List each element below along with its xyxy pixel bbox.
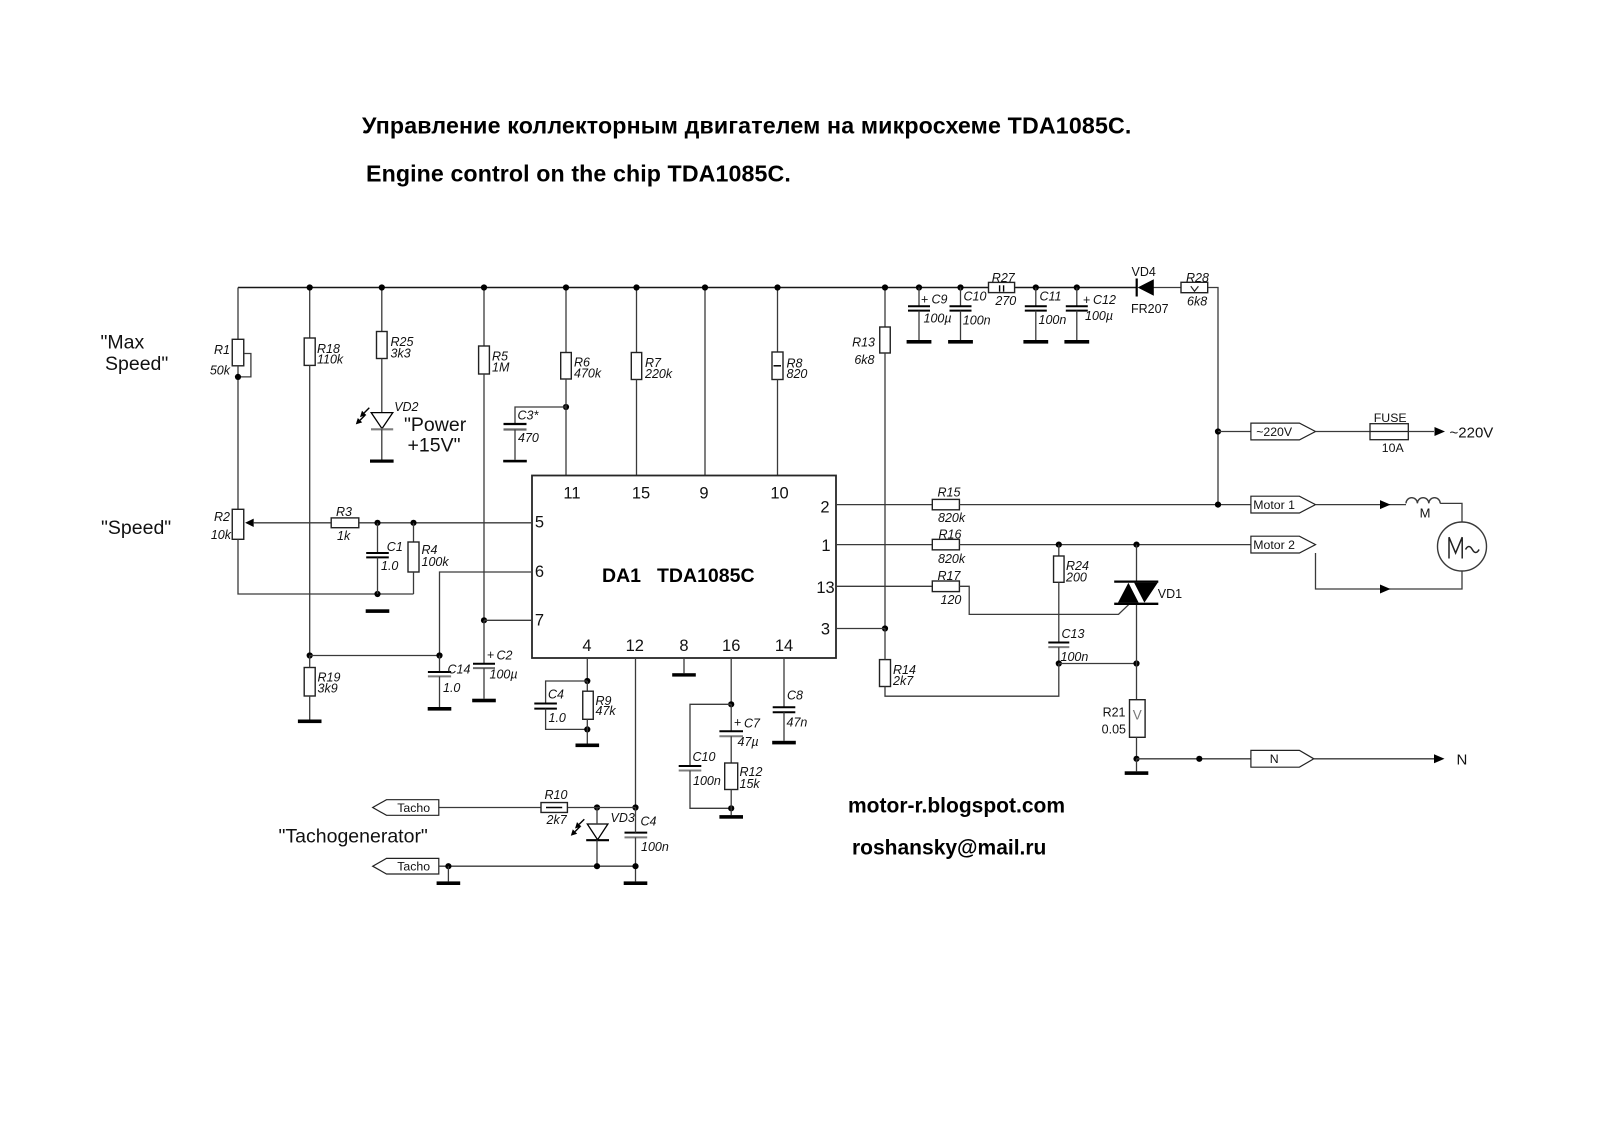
ground below C2 <box>472 699 496 703</box>
connector flag Tacho (top) <box>373 800 439 816</box>
svg-text:3k9: 3k9 <box>318 681 338 695</box>
junction bus at R13 <box>882 284 888 290</box>
capacitor C3* <box>504 408 540 445</box>
svg-text:R13: R13 <box>852 336 875 350</box>
svg-text:R16: R16 <box>939 528 962 542</box>
svg-text:~220V: ~220V <box>1450 424 1494 441</box>
svg-text:11: 11 <box>563 485 580 503</box>
svg-text:roshansky@mail.ru: roshansky@mail.ru <box>852 837 1046 860</box>
resistor R12 <box>725 763 763 791</box>
svg-text:120: 120 <box>941 593 962 607</box>
svg-text:100n: 100n <box>1039 313 1067 327</box>
connector flag Tacho (bottom) <box>373 858 439 874</box>
svg-text:14: 14 <box>775 637 793 655</box>
svg-text:820: 820 <box>787 367 808 381</box>
wire: R14 top lead <box>884 629 886 660</box>
potentiometer R1 <box>210 339 244 377</box>
svg-text:13: 13 <box>816 579 834 597</box>
wire: bus to chip pin 9 <box>704 288 706 476</box>
wire: R10 row <box>439 807 636 809</box>
arrowhead: motor return wire <box>1380 585 1391 594</box>
wire: C13 node to triac column <box>1059 663 1137 665</box>
junction bottom row at VD3 <box>594 863 600 869</box>
junction on N row <box>1196 756 1202 762</box>
svg-text:N: N <box>1270 752 1279 766</box>
ground below R12/C10 <box>719 815 743 819</box>
capacitor C13 <box>1048 627 1088 664</box>
wire: R15 to Motor1 flag <box>959 504 1251 506</box>
capacitor C14 <box>428 663 471 695</box>
svg-text:100n: 100n <box>641 840 669 854</box>
junction R16 row at R24 <box>1056 542 1062 548</box>
resistor R16 <box>932 528 966 566</box>
junction pin5 row at R4 <box>410 520 416 526</box>
junction R16 row at triac <box>1133 542 1139 548</box>
triac VD1 <box>1114 582 1182 604</box>
ground below C10 <box>948 340 973 344</box>
ground below R9 <box>576 744 600 748</box>
wire: R2 bottom to ground row <box>238 539 414 594</box>
ground below C12 <box>1064 340 1089 344</box>
svg-text:"Power: "Power <box>404 414 467 436</box>
svg-text:Tacho: Tacho <box>397 801 430 815</box>
resistor R19 <box>304 668 340 697</box>
resistor R24 <box>1054 556 1089 584</box>
wire: bus to R25 <box>381 288 383 332</box>
resistor R4 <box>408 542 449 572</box>
junction N node below R21 <box>1133 756 1139 762</box>
svg-text:200: 200 <box>1065 570 1087 584</box>
wire: pin 5 row (R2 wiper to chip) <box>254 522 532 524</box>
junction R19 top node <box>307 652 313 658</box>
wire: tacho ground stem <box>447 866 449 881</box>
ground at C1/R2/R4 net <box>366 609 390 613</box>
wire: C10 to ground <box>960 311 962 340</box>
wire: pin 4 down <box>586 658 588 681</box>
svg-text:R15: R15 <box>938 485 961 499</box>
junction bus at R18 <box>307 284 313 290</box>
wire: C14 top lead <box>439 656 441 673</box>
wire: triac column to R21 <box>1136 664 1138 700</box>
svg-text:R28: R28 <box>1186 271 1209 285</box>
svg-text:12: 12 <box>626 637 644 655</box>
capacitor C10 (100n) <box>679 750 721 788</box>
capacitor C4 (1.0) <box>534 687 566 725</box>
junction pin5 row at C1 <box>374 520 380 526</box>
wire: bus to R13 <box>884 288 886 328</box>
junction bus at C10 <box>957 284 963 290</box>
wire: bus to C10 <box>960 288 962 307</box>
wire: triac top lead <box>1136 545 1138 581</box>
wire: R24 to C13 <box>1058 582 1060 642</box>
electrolytic capacitor C12 <box>1066 293 1116 323</box>
svg-text:10: 10 <box>770 485 788 503</box>
wire: N flag to output <box>1314 758 1434 760</box>
wire: R5 bottom to pin7 node <box>483 374 485 620</box>
ground below C8 <box>772 741 796 745</box>
resistor R8 <box>772 352 807 381</box>
wire: bus to R5 <box>483 288 485 347</box>
wire: R1 bottom to R2 top <box>237 366 239 510</box>
wire: R4 top lead <box>413 523 415 542</box>
ground below R21 <box>1125 771 1149 775</box>
svg-text:C2: C2 <box>497 648 513 662</box>
junction bus at C12 <box>1074 284 1080 290</box>
svg-text:+: + <box>487 648 494 662</box>
svg-text:Motor 1: Motor 1 <box>1253 498 1295 512</box>
junction bus at C9 <box>916 284 922 290</box>
wire: R28 to right column, down to motor1 row <box>1208 288 1218 505</box>
junction R10 row at VD3 <box>594 804 600 810</box>
svg-text:10A: 10A <box>1382 441 1405 455</box>
wire: pin 8 to ground <box>683 658 685 673</box>
junction R9 bottom node <box>584 726 590 732</box>
junction ground row at C1 <box>374 591 380 597</box>
svg-text:+: + <box>921 292 928 306</box>
wire: inductor to motor top <box>1440 503 1462 522</box>
wire: C14 to ground <box>439 676 441 707</box>
svg-text:Tacho: Tacho <box>397 860 430 874</box>
svg-text:1M: 1M <box>492 361 510 375</box>
resistor R10 <box>541 788 568 827</box>
svg-text:6k8: 6k8 <box>1187 294 1207 308</box>
wire: R12 bottom to ground <box>730 790 732 816</box>
LED VD3 <box>571 811 635 840</box>
junction R12 bottom node <box>728 805 734 811</box>
inductor M (motor field) <box>1406 498 1440 521</box>
svg-text:C14: C14 <box>448 663 471 677</box>
svg-text:5: 5 <box>535 514 544 532</box>
wire: R18 bottom down to R19 node <box>309 365 311 655</box>
svg-text:"Max: "Max <box>101 331 145 353</box>
svg-text:100n: 100n <box>963 313 991 327</box>
resistor R7 <box>631 353 673 381</box>
wire: pin 7 to C2 node <box>484 619 532 621</box>
ground below C3 <box>503 460 527 463</box>
svg-text:1.0: 1.0 <box>549 711 566 725</box>
wire: R8 to chip pin 10 <box>777 380 779 476</box>
svg-text:7: 7 <box>535 612 544 630</box>
ground below C11 <box>1023 340 1048 344</box>
potentiometer R2 <box>211 509 244 542</box>
connector flag N <box>1251 750 1314 767</box>
wire: C4 loop bottom <box>546 709 588 730</box>
svg-text:100n: 100n <box>1061 650 1089 664</box>
wire: R19 top lead <box>309 656 311 668</box>
svg-text:0.05: 0.05 <box>1102 723 1126 737</box>
svg-text:1.0: 1.0 <box>381 559 398 573</box>
svg-text:R21: R21 <box>1103 706 1126 720</box>
svg-text:50k: 50k <box>210 364 231 378</box>
svg-text:820k: 820k <box>938 511 966 525</box>
svg-text:DA1: DA1 <box>602 565 641 587</box>
svg-text:VD2: VD2 <box>394 400 418 414</box>
wire: R7 to chip pin 15 <box>636 380 638 476</box>
wire: pin 12 down to R10 row <box>635 658 637 808</box>
wire: R14 bottom loop to C13 node <box>885 664 1059 697</box>
wire: pin7 node to C2 <box>483 620 485 664</box>
resistor R5 <box>479 346 510 375</box>
svg-text:10k: 10k <box>211 528 232 542</box>
svg-text:47n: 47n <box>787 715 808 729</box>
svg-text:Speed": Speed" <box>105 353 168 375</box>
svg-text:C10: C10 <box>693 750 716 764</box>
resistor R28 <box>1181 271 1209 309</box>
resistor R14 <box>880 660 916 688</box>
junction pin4 node <box>584 678 590 684</box>
svg-text:N: N <box>1457 751 1468 768</box>
svg-text:"Speed": "Speed" <box>101 517 171 539</box>
svg-text:+15V": +15V" <box>408 435 461 457</box>
svg-text:C10: C10 <box>964 290 987 304</box>
wire: R9 top lead <box>586 681 588 691</box>
wire: pin 2 row to R15 <box>836 504 932 506</box>
wire: N row to flag <box>1137 758 1251 760</box>
svg-text:C4: C4 <box>548 687 564 701</box>
junction R1 wiper to wire <box>235 374 241 380</box>
svg-text:R3: R3 <box>336 505 352 519</box>
junction R6 column at C3 tap <box>563 404 569 410</box>
svg-text:15k: 15k <box>740 777 761 791</box>
wire: C8 to ground <box>783 712 785 741</box>
junction pin7 node at C2 <box>481 617 487 623</box>
svg-text:+: + <box>1083 293 1090 307</box>
junction bottom row at C4 <box>632 863 638 869</box>
ground below C9 <box>907 340 932 344</box>
junction bus at R5 <box>481 284 487 290</box>
wire: bus to R7 <box>636 288 638 353</box>
junction C13 bottom node <box>1056 660 1062 666</box>
wire: C2 to ground <box>483 668 485 699</box>
wire: VD3 cathode to bottom row <box>596 840 598 866</box>
IC DA1 TDA1085C <box>532 476 836 659</box>
wire: bottom tacho row <box>439 865 636 867</box>
svg-text:100µ: 100µ <box>490 667 518 681</box>
wire: pin 6 to C14 node <box>440 572 533 656</box>
ground below R19 <box>298 720 322 724</box>
wire: C13 bottom lead <box>1058 647 1060 663</box>
wire: C4(100n) bottom lead <box>635 837 637 881</box>
wire: C3 tap <box>515 407 566 424</box>
wire: bus to C9 <box>918 288 920 307</box>
arrowhead: R2 wiper <box>245 519 254 527</box>
wire: pin 16 down <box>730 658 732 704</box>
wire: R6 to chip pin 11 <box>565 379 567 476</box>
svg-text:100n: 100n <box>693 774 721 788</box>
junction bus at R8 <box>774 284 780 290</box>
svg-text:110k: 110k <box>317 352 344 366</box>
wire: R17 to triac gate <box>959 586 1128 614</box>
wire: VD4 to R28 <box>1154 287 1182 289</box>
svg-text:VD1: VD1 <box>1158 587 1182 601</box>
svg-text:FR207: FR207 <box>1131 302 1169 316</box>
svg-text:TDA1085C: TDA1085C <box>657 565 755 587</box>
junction bus at pin 9 <box>702 284 708 290</box>
svg-text:C11: C11 <box>1040 290 1062 304</box>
wire: bus to C12 <box>1076 288 1078 307</box>
svg-text:6: 6 <box>535 563 544 581</box>
wire: pin 14 down to C8 <box>783 658 785 707</box>
svg-text:15: 15 <box>632 485 650 503</box>
svg-text:820k: 820k <box>938 552 966 566</box>
ground below C4(100n) <box>624 881 648 885</box>
svg-text:R1: R1 <box>214 343 230 357</box>
svg-text:100µ: 100µ <box>924 311 952 325</box>
arrowhead: motor1 wire <box>1380 500 1391 509</box>
svg-text:VD3: VD3 <box>611 811 635 825</box>
svg-text:motor-r.blogspot.com: motor-r.blogspot.com <box>848 795 1065 818</box>
svg-text:47µ: 47µ <box>738 735 759 749</box>
svg-text:3k3: 3k3 <box>391 347 411 361</box>
capacitor C2 <box>473 648 518 681</box>
svg-text:M: M <box>1420 506 1431 521</box>
wire: R19 bottom lead <box>309 696 311 720</box>
wire: pin 13 row to R17 <box>836 585 932 587</box>
junction R10 row at pin12 column <box>632 804 638 810</box>
svg-text:R17: R17 <box>938 569 962 583</box>
capacitor C4 (100n) <box>625 815 669 855</box>
svg-text:2: 2 <box>820 498 829 516</box>
wire: pin 1 row to R16 <box>836 544 932 546</box>
wire: C1 top lead <box>377 523 379 553</box>
svg-text:6k8: 6k8 <box>854 353 874 367</box>
wire: C9 to ground <box>918 311 920 340</box>
svg-text:47k: 47k <box>596 704 617 718</box>
svg-text:C9: C9 <box>932 293 948 307</box>
wire: VD2 to ground <box>381 429 383 459</box>
wire: bus to R8 <box>777 288 779 353</box>
wire: C11 to ground <box>1035 311 1037 340</box>
svg-text:470k: 470k <box>574 367 602 381</box>
wire: R21 to N node <box>1136 737 1138 759</box>
wire: C10 branch bottom <box>690 771 731 809</box>
wire: C12 to ground <box>1076 311 1078 340</box>
svg-text:100µ: 100µ <box>1085 309 1113 323</box>
junction bottom row ground tap <box>445 863 451 869</box>
wire: R16 to Motor2 flag <box>959 544 1251 546</box>
resistor R6 <box>561 353 602 381</box>
wire: bus left end down to R1 <box>237 288 239 340</box>
svg-text:C12: C12 <box>1093 293 1116 307</box>
wire: bus to R18 <box>309 288 311 339</box>
svg-text:1k: 1k <box>337 529 351 543</box>
resistor R18 <box>304 338 344 366</box>
svg-text:C4: C4 <box>641 815 657 829</box>
label "Max Speed" <box>101 331 169 375</box>
svg-text:C7: C7 <box>744 717 761 731</box>
junction pin3 node <box>882 625 888 631</box>
svg-text:R27: R27 <box>992 271 1016 285</box>
svg-text:8: 8 <box>679 637 688 655</box>
junction bus at R7 <box>633 284 639 290</box>
wire: C7 top lead <box>730 704 732 731</box>
svg-text:2k7: 2k7 <box>892 674 914 688</box>
wire: C1 bottom lead <box>377 557 379 594</box>
wire: bus to R6 <box>565 288 567 353</box>
resistor R25 <box>377 332 414 361</box>
wire: R13 bottom to pin3 node <box>884 353 886 629</box>
ground below tacho return <box>437 881 461 885</box>
svg-text:V: V <box>1133 708 1142 723</box>
wire: 220V flag to fuse <box>1316 431 1371 433</box>
svg-text:3: 3 <box>821 621 830 639</box>
wire: C7 to R12 <box>730 736 732 763</box>
svg-text:VD4: VD4 <box>1132 265 1156 279</box>
svg-text:4: 4 <box>582 637 591 655</box>
svg-text:16: 16 <box>722 637 740 655</box>
svg-text:"Tachogenerator": "Tachogenerator" <box>279 826 428 848</box>
svg-text:100k: 100k <box>422 555 450 569</box>
resistor R27 <box>989 271 1017 308</box>
wire: R25 to VD2 <box>381 359 383 413</box>
svg-text:C3*: C3* <box>518 408 540 422</box>
diode VD4 FR207 <box>1131 265 1169 316</box>
svg-text:1.0: 1.0 <box>443 681 460 695</box>
capacitor C1 <box>366 540 403 573</box>
wire: R1 wiper bracket <box>238 354 251 377</box>
svg-text:FUSE: FUSE <box>1374 411 1407 425</box>
svg-text:Управление коллекторным двигат: Управление коллекторным двигателем на ми… <box>362 113 1132 139</box>
connector flag ~220V <box>1251 423 1316 440</box>
junction triac column at C13 row <box>1133 660 1139 666</box>
wire: C3 to ground <box>514 430 516 460</box>
svg-text:1: 1 <box>821 537 830 555</box>
wire: C4(100n) top lead <box>635 808 637 833</box>
resistor R13 <box>852 327 890 367</box>
fuse FUSE 10A <box>1370 411 1408 455</box>
capacitor C10 (bus) <box>950 290 991 328</box>
wire: triac bottom lead <box>1136 605 1138 664</box>
wire: bus to C11 <box>1035 288 1037 307</box>
svg-text:C8: C8 <box>787 689 803 703</box>
wire: C10 branch left <box>690 704 731 766</box>
svg-text:R10: R10 <box>545 788 568 802</box>
junction bus at C11 <box>1033 284 1039 290</box>
junction motor1 row at right column <box>1215 502 1221 508</box>
wire: fuse to 220V output <box>1408 431 1434 433</box>
motor M~ <box>1438 522 1487 571</box>
svg-text:Engine control on the chip TDA: Engine control on the chip TDA1085C. <box>366 161 791 187</box>
label "Power +15V" <box>404 414 467 457</box>
wire: pin 3 row to R13/R14 node <box>836 628 885 630</box>
svg-text:C13: C13 <box>1062 627 1085 641</box>
wire: N node to ground <box>1136 759 1138 772</box>
ground below pin 8 <box>672 673 696 676</box>
wire: R19 node to C14 node <box>310 655 440 657</box>
resistor R9 <box>583 691 617 719</box>
arrowhead: N output <box>1434 754 1445 763</box>
resistor R21 <box>1102 700 1145 738</box>
ground below VD2 <box>370 460 394 463</box>
wire: Motor1 flag to inductor <box>1316 504 1406 506</box>
wire: R24 top lead <box>1058 545 1060 556</box>
ground below C14 <box>428 707 452 711</box>
wire: top bus R27 to VD4 <box>1015 287 1137 289</box>
svg-text:2k7: 2k7 <box>546 813 568 827</box>
arrowhead: 220V output <box>1435 427 1446 436</box>
connector flag Motor 1 <box>1251 496 1316 513</box>
svg-text:+: + <box>734 716 741 730</box>
capacitor C8 <box>773 689 808 730</box>
wire: C4 loop top <box>546 681 588 704</box>
junction C14 top node <box>436 652 442 658</box>
svg-text:270: 270 <box>994 294 1016 308</box>
connector flag Motor 2 <box>1251 536 1316 553</box>
svg-text:220k: 220k <box>644 367 673 381</box>
svg-text:Motor 2: Motor 2 <box>1253 538 1295 552</box>
resistor R17 <box>932 569 961 607</box>
wire: motor bottom loop <box>1316 553 1463 589</box>
